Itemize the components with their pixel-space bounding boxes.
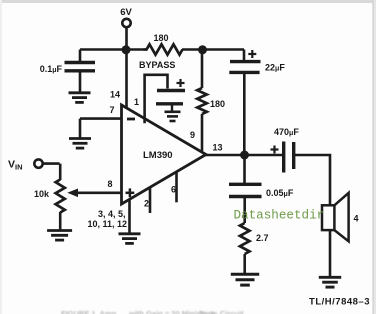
svg-text:2: 2: [144, 199, 149, 209]
wire output pin 13: [205, 154, 283, 157]
svg-text:180: 180: [153, 33, 168, 43]
capacitor C5 0.05uF: [229, 155, 294, 198]
wire pin 1: [145, 75, 168, 124]
page border strips (decorative): [0, 0, 376, 3]
svg-text:LM390: LM390: [143, 150, 173, 161]
speaker LS1: [322, 193, 359, 241]
wire 470uF to speaker: [295, 155, 330, 205]
capacitor C3 22uF: [229, 50, 285, 73]
svg-text:FIGURE 1. Amp: FIGURE 1. Amp: [61, 309, 117, 314]
ground pins 3,4,5: [119, 234, 141, 244]
ground under C1: [69, 93, 91, 103]
wire pin 9: [201, 114, 204, 151]
svg-text:1: 1: [134, 97, 139, 107]
svg-text:0.05μF: 0.05μF: [266, 188, 294, 198]
wire top bus left: [80, 48, 127, 51]
pins 3,4,5,10,11,12 label: [87, 209, 127, 229]
wire speaker to ground: [329, 230, 332, 277]
wire pin 7: [80, 119, 122, 139]
ground speaker: [319, 277, 341, 287]
capacitor C1 0.1uF: [40, 50, 95, 93]
node supply junction: [122, 45, 131, 54]
op-amp U1 LM390: [122, 105, 207, 204]
node output junction: [240, 151, 249, 160]
svg-text:Datasheetdir: Datasheetdir: [234, 209, 325, 223]
wire pins 3,4,5,10,11,12: [128, 200, 131, 234]
wire bus to 22uF: [203, 48, 245, 51]
wire 22uF to output node: [243, 74, 246, 155]
wire bus to R1: [127, 48, 145, 51]
svg-text:VIN: VIN: [8, 159, 23, 172]
ground under pot: [47, 231, 72, 241]
resistor R3 2.7: [240, 223, 269, 274]
wire pin 6 stub: [175, 172, 178, 202]
svg-text:4: 4: [354, 214, 359, 224]
wire pin 14: [125, 50, 128, 109]
svg-text:14: 14: [110, 90, 120, 100]
terminal VIN: [8, 159, 60, 181]
svg-text:13: 13: [213, 143, 223, 153]
ground under R3: [231, 274, 259, 285]
node R2 top: [198, 45, 207, 54]
wire wiper to pin 8: [67, 189, 121, 198]
svg-text:470μF: 470μF: [274, 127, 299, 137]
svg-text:10, 11, 12: 10, 11, 12: [87, 219, 127, 229]
wire pin 2 stub: [149, 188, 152, 214]
svg-text:0.1μF: 0.1μF: [40, 64, 63, 74]
svg-text:9: 9: [190, 130, 195, 140]
svg-text:8: 8: [107, 179, 112, 189]
terminal 6V supply: [120, 7, 132, 50]
capacitor bypass: [156, 79, 185, 112]
ground bypass: [165, 112, 181, 121]
svg-text:BYPASS: BYPASS: [139, 60, 175, 70]
svg-text:Parts Circuit: Parts Circuit: [199, 309, 244, 314]
resistor R1 180: [144, 33, 183, 55]
svg-text:7: 7: [109, 105, 114, 115]
svg-text:6V: 6V: [120, 7, 132, 18]
resistor R2 180: [197, 50, 225, 115]
svg-text:3, 4, 5,: 3, 4, 5,: [98, 209, 126, 219]
wire 0.05uF to R3: [243, 198, 246, 223]
svg-text:TL/H/7848–3: TL/H/7848–3: [309, 297, 370, 308]
svg-text:2.7: 2.7: [256, 233, 269, 243]
wire R1 to node: [182, 48, 203, 51]
svg-text:10k: 10k: [34, 189, 50, 199]
svg-text:22μF: 22μF: [265, 63, 285, 73]
caption fragments bottom: [61, 309, 244, 314]
ground pin 7: [69, 139, 91, 149]
potentiometer 10k: [34, 180, 65, 231]
svg-text:180: 180: [210, 99, 225, 109]
capacitor C4 470uF: [271, 127, 300, 173]
